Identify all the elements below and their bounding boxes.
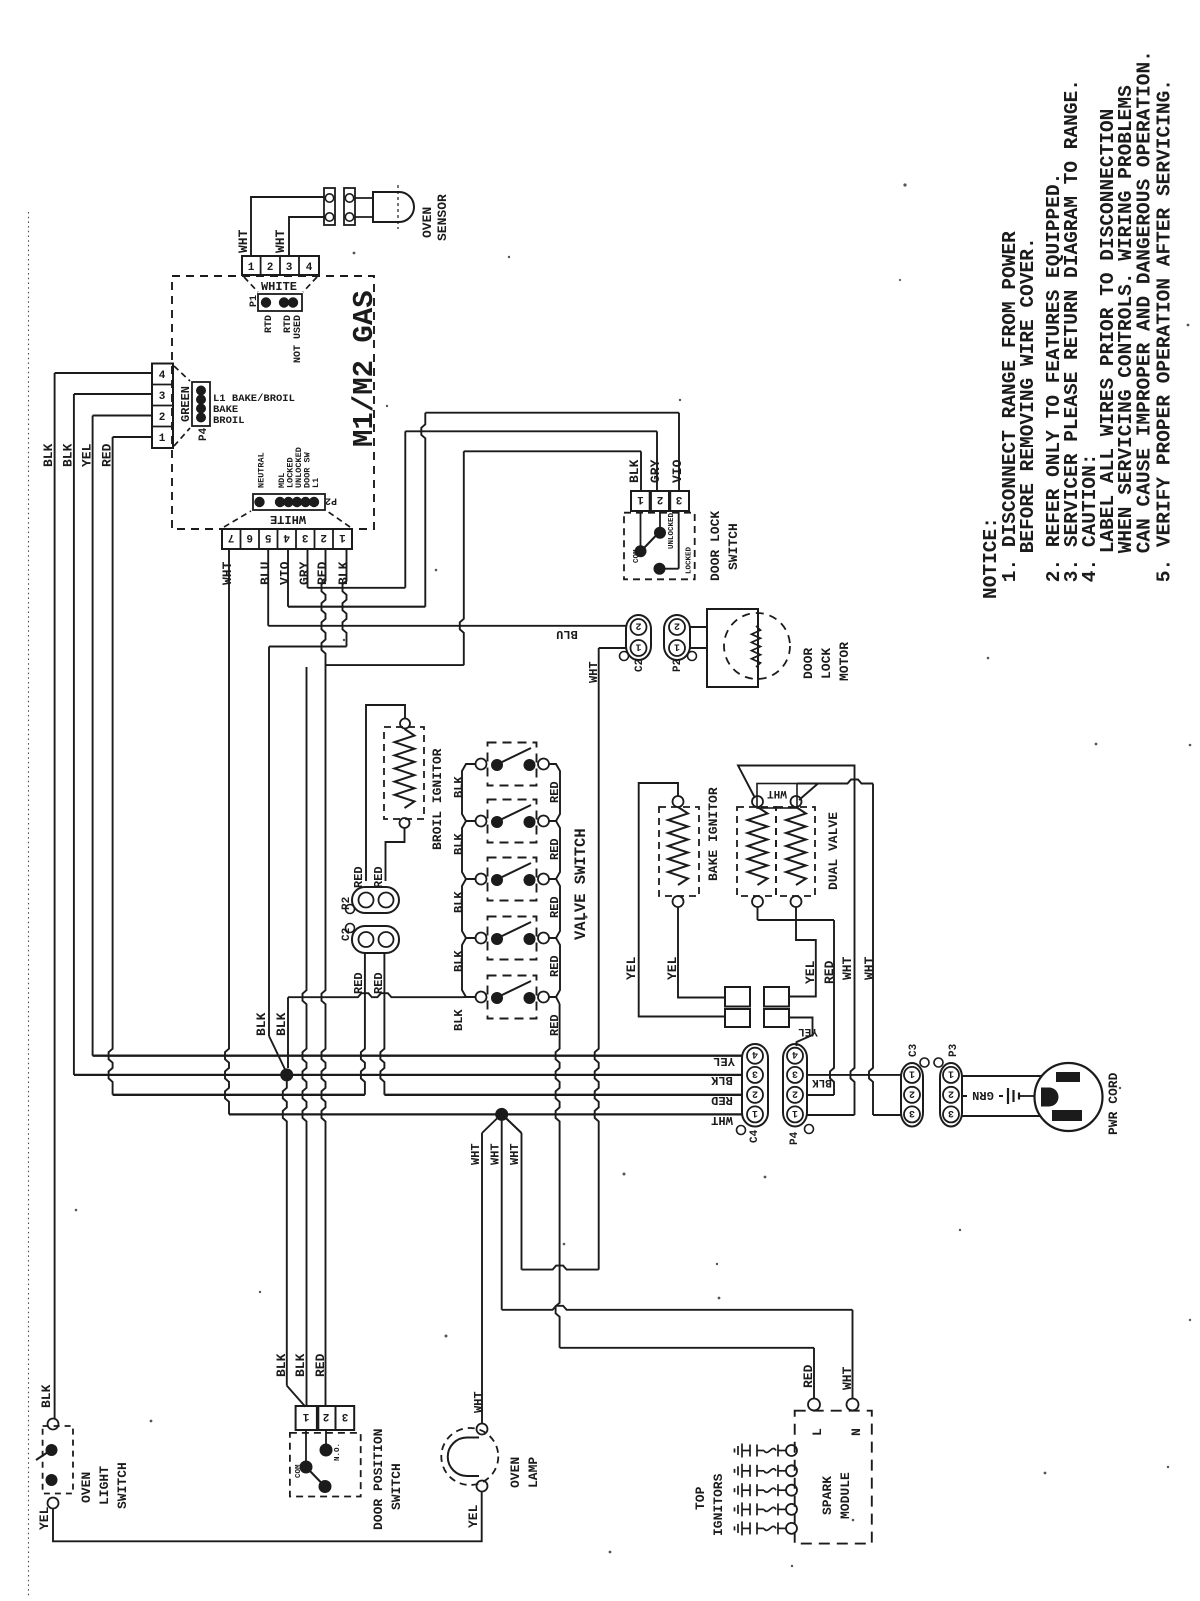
svg-text:1: 1 bbox=[339, 531, 346, 543]
oven lamp dashed circle bbox=[441, 1428, 498, 1485]
svg-text:RTD: RTD bbox=[264, 315, 275, 333]
wire BLK board left pin4 bbox=[55, 372, 152, 374]
svg-text:M1/M2 GAS: M1/M2 GAS bbox=[348, 290, 381, 447]
WHT label box on dual valve bbox=[757, 784, 797, 809]
svg-text:BLK: BLK bbox=[710, 1073, 732, 1087]
wire VIO board bottom pin4 to door lock switch pin3 bbox=[287, 549, 289, 607]
svg-text:LAMP: LAMP bbox=[526, 1457, 541, 1488]
bake ignitor terminal bottom bbox=[673, 896, 684, 907]
svg-text:4: 4 bbox=[792, 1048, 798, 1059]
bake ignitor dashed box bbox=[659, 807, 699, 896]
svg-text:RED: RED bbox=[822, 960, 837, 984]
svg-text:4: 4 bbox=[752, 1048, 758, 1059]
svg-text:1: 1 bbox=[909, 1067, 915, 1078]
svg-text:VALVE SWITCH: VALVE SWITCH bbox=[572, 828, 590, 940]
valve switch contacts row 5 bbox=[476, 992, 487, 1003]
connector P1 on board bbox=[258, 294, 302, 311]
svg-text:OVEN: OVEN bbox=[420, 207, 435, 238]
svg-text:1: 1 bbox=[637, 493, 644, 505]
svg-text:BLK: BLK bbox=[452, 950, 466, 972]
svg-text:BLK: BLK bbox=[41, 443, 56, 467]
svg-text:SWITCH: SWITCH bbox=[389, 1463, 404, 1510]
oven light switch contacts bbox=[46, 1444, 58, 1456]
svg-text:YEL: YEL bbox=[665, 956, 680, 980]
svg-text:2: 2 bbox=[267, 262, 274, 274]
svg-text:2: 2 bbox=[159, 412, 166, 424]
svg-text:WHITE: WHITE bbox=[270, 512, 306, 526]
svg-text:BLK: BLK bbox=[254, 1012, 269, 1036]
svg-text:WHT: WHT bbox=[273, 229, 288, 253]
dual valve coil right bbox=[786, 807, 806, 885]
broil ignitor resistor bbox=[395, 729, 415, 808]
svg-text:3: 3 bbox=[675, 493, 682, 505]
scan edge artifact left bbox=[28, 212, 30, 1596]
svg-text:RED: RED bbox=[315, 561, 330, 585]
svg-text:WHT: WHT bbox=[489, 1143, 503, 1165]
door lock motor dashed circle bbox=[724, 613, 790, 679]
connector C3 bbox=[901, 1063, 923, 1127]
ground symbol bbox=[1007, 1088, 1009, 1104]
broil ignitor terminal bottom bbox=[400, 818, 410, 828]
svg-text:BLK: BLK bbox=[336, 561, 351, 585]
svg-text:WHT: WHT bbox=[587, 661, 601, 683]
label GRN bbox=[967, 1088, 999, 1104]
svg-text:UNLOCKED: UNLOCKED bbox=[668, 512, 676, 549]
connector C4 bbox=[742, 1044, 768, 1127]
svg-text:3: 3 bbox=[792, 1067, 798, 1078]
svg-text:YEL: YEL bbox=[798, 1025, 818, 1037]
svg-text:RED: RED bbox=[352, 972, 366, 994]
wire WHT dual valve common to P4 pin1 bbox=[738, 766, 855, 799]
svg-text:NEUTRAL: NEUTRAL bbox=[257, 452, 267, 488]
wire BLK board bottom pin1 to BLK bus junction bbox=[343, 549, 347, 647]
svg-text:BROIL IGNITOR: BROIL IGNITOR bbox=[430, 748, 445, 850]
broil ignitor terminal top bbox=[400, 719, 410, 729]
oven lamp terminal top bbox=[477, 1424, 488, 1435]
svg-text:OVEN: OVEN bbox=[79, 1472, 94, 1503]
svg-text:BLK: BLK bbox=[61, 443, 76, 467]
svg-text:P2: P2 bbox=[325, 495, 337, 506]
valve switch left chain wires bbox=[462, 764, 476, 821]
wire C2 pin2 down to RED bus east segment bbox=[380, 953, 384, 1095]
wire WHT to spark module N bbox=[501, 1114, 503, 1309]
svg-text:GREEN: GREEN bbox=[179, 386, 193, 422]
wire WHT board pin1 to oven sensor bbox=[251, 197, 324, 256]
oven light switch terminal bottom bbox=[48, 1498, 59, 1509]
control board M1/M2 GAS dashed outline bbox=[172, 276, 374, 529]
wire RED into spark module L bbox=[808, 1399, 820, 1411]
svg-text:C2: C2 bbox=[341, 928, 353, 941]
door position switch dashed box bbox=[290, 1433, 361, 1497]
svg-text:PWR CORD: PWR CORD bbox=[1106, 1072, 1121, 1135]
svg-text:BLK: BLK bbox=[274, 1353, 289, 1377]
svg-text:MOTOR: MOTOR bbox=[837, 642, 852, 681]
wire BLK valve chain to door position switch pin1 bbox=[303, 667, 307, 1407]
dual valve terminal top-right bbox=[791, 796, 802, 807]
svg-text:BLU: BLU bbox=[258, 562, 273, 585]
svg-text:WHT: WHT bbox=[508, 1143, 522, 1165]
svg-text:BLU: BLU bbox=[556, 627, 578, 641]
wire GRN P3 pin2 with ground bbox=[962, 1095, 1003, 1097]
power cord blade bottom bbox=[1052, 1110, 1082, 1121]
fuse box left (two-box) bbox=[725, 987, 750, 1007]
wire WHT door lock motor pin1 to WHT bus bbox=[599, 647, 626, 649]
bake ignitor terminal top bbox=[673, 796, 684, 807]
svg-text:1: 1 bbox=[635, 641, 641, 652]
svg-text:BLK: BLK bbox=[627, 459, 642, 483]
door position switch contacts bbox=[305, 1430, 307, 1462]
svg-text:1: 1 bbox=[159, 433, 166, 445]
wire RED dual valve common to P4 pin2 bbox=[830, 920, 834, 1095]
wire WHT into spark module N bbox=[847, 1399, 859, 1411]
wire WHT to oven lamp bbox=[482, 1117, 499, 1134]
svg-text:WHT: WHT bbox=[840, 956, 855, 980]
connector P4 on board bbox=[192, 382, 210, 426]
svg-text:BLK: BLK bbox=[452, 833, 466, 855]
svg-text:4: 4 bbox=[159, 370, 166, 382]
door lock switch connector strip pins 1-3 bbox=[631, 491, 689, 511]
dual valve terminal bottom-left bbox=[752, 896, 763, 907]
svg-text:3: 3 bbox=[341, 1410, 348, 1422]
wire broil top to ignitor P2 pin1 bbox=[366, 705, 405, 881]
svg-text:2: 2 bbox=[752, 1087, 758, 1098]
board bottom connector P2 bbox=[253, 494, 325, 510]
bus BLK to C4 pin3 bbox=[74, 1074, 742, 1076]
oven sensor connector block A bbox=[324, 188, 335, 225]
svg-text:WHT: WHT bbox=[862, 956, 877, 980]
wire RED valve switch to spark module L bbox=[549, 997, 560, 1004]
svg-text:RED: RED bbox=[801, 1364, 816, 1388]
svg-text:1: 1 bbox=[752, 1107, 758, 1118]
svg-text:2: 2 bbox=[635, 620, 641, 631]
svg-text:RED: RED bbox=[313, 1353, 328, 1377]
wire BLK valve switch feed from BLK bus bbox=[462, 996, 476, 998]
svg-text:P2: P2 bbox=[672, 659, 684, 672]
svg-text:WHT: WHT bbox=[472, 1391, 486, 1413]
svg-text:LOCKED: LOCKED bbox=[686, 546, 694, 574]
svg-text:YEL: YEL bbox=[37, 1506, 52, 1530]
wire WHT board bottom pin7 to WHT bus bbox=[225, 549, 229, 1114]
power cord circle bbox=[1035, 1063, 1103, 1131]
wire P3 pin1 to power cord bbox=[962, 1075, 1041, 1077]
svg-text:TOP: TOP bbox=[693, 1486, 708, 1510]
svg-text:C3: C3 bbox=[908, 1043, 920, 1057]
oven sensor bulb bbox=[373, 192, 414, 222]
wire YEL bake top loop to fuse box bottom bbox=[639, 783, 725, 1017]
wire dual valve bottom common bbox=[757, 907, 759, 920]
connector C2 (ignitor) bbox=[352, 926, 399, 953]
valve switch contacts row 3 bbox=[476, 874, 487, 885]
junction dot BLK bus bbox=[280, 1068, 293, 1081]
door position switch connector strip bbox=[296, 1406, 355, 1430]
oven lamp terminal bottom bbox=[477, 1481, 488, 1492]
wire C2 pin1 down to RED bus west segment bbox=[361, 953, 365, 1095]
svg-text:DOOR: DOOR bbox=[801, 648, 816, 679]
svg-text:LIGHT: LIGHT bbox=[97, 1466, 112, 1505]
svg-text:YEL: YEL bbox=[80, 443, 95, 467]
wire BLK P4 pin3 to C3 pin1 bbox=[807, 1074, 901, 1076]
svg-text:4: 4 bbox=[306, 262, 313, 274]
svg-text:SPARK: SPARK bbox=[820, 1476, 835, 1515]
svg-text:IGNITORS: IGNITORS bbox=[711, 1473, 726, 1536]
svg-text:BLK: BLK bbox=[39, 1384, 54, 1408]
svg-text:RED: RED bbox=[711, 1093, 733, 1107]
svg-text:DOOR LOCK: DOOR LOCK bbox=[708, 511, 723, 581]
svg-text:BLK: BLK bbox=[293, 1353, 308, 1377]
svg-text:NOT USED: NOT USED bbox=[293, 315, 304, 363]
svg-text:6: 6 bbox=[246, 531, 253, 543]
wire BLK junction to door position switch pin1 bbox=[283, 1078, 287, 1386]
svg-text:VIO: VIO bbox=[278, 561, 293, 585]
svg-text:2: 2 bbox=[674, 620, 680, 631]
svg-text:3: 3 bbox=[302, 531, 309, 543]
svg-text:3: 3 bbox=[948, 1107, 954, 1118]
svg-text:LOCK: LOCK bbox=[819, 648, 834, 679]
connector P3 bbox=[940, 1063, 962, 1127]
connector P2 (ignitor) bbox=[352, 887, 399, 913]
svg-text:2: 2 bbox=[948, 1087, 954, 1098]
fuse box right (two-box) bbox=[764, 987, 789, 1007]
svg-text:WHT: WHT bbox=[236, 229, 251, 253]
svg-text:SWITCH: SWITCH bbox=[115, 1462, 130, 1509]
junction dot WHT bus bbox=[495, 1108, 508, 1121]
oven light switch dashed box bbox=[43, 1426, 73, 1494]
svg-text:BLK: BLK bbox=[452, 776, 466, 798]
connector P2 (door lock motor) bbox=[664, 615, 690, 660]
wire sensor block B to bulb bbox=[355, 197, 373, 199]
wire P2 to motor bbox=[690, 626, 707, 628]
svg-text:5: 5 bbox=[265, 531, 272, 543]
svg-text:CAN CAUSE IMPROPER AND DANGERO: CAN CAUSE IMPROPER AND DANGEROUS OPERATI… bbox=[1134, 50, 1156, 553]
board bottom connector strip pins 7-1 bbox=[222, 529, 352, 549]
bus RED west segment bbox=[113, 1094, 365, 1096]
svg-text:2: 2 bbox=[657, 493, 664, 505]
board left connector strip pins 4-1 (GREEN) bbox=[152, 364, 173, 449]
oven sensor connector block B bbox=[344, 188, 355, 225]
svg-text:L: L bbox=[810, 1428, 825, 1436]
svg-text:5. VERIFY PROPER OPERATION AFT: 5. VERIFY PROPER OPERATION AFTER SERVICI… bbox=[1154, 79, 1176, 582]
wire YEL dual valve common to fuse box right bbox=[789, 920, 816, 997]
bake ignitor resistor bbox=[668, 807, 688, 885]
svg-text:2: 2 bbox=[323, 1410, 330, 1422]
svg-text:GRY: GRY bbox=[648, 459, 663, 483]
wire P3 pin3 to power cord bbox=[962, 1115, 1041, 1117]
wire YEL board left pin2 to YEL bus bbox=[93, 415, 152, 417]
svg-text:BLK: BLK bbox=[812, 1076, 832, 1088]
oven light switch terminal top bbox=[48, 1419, 59, 1430]
valve switch contacts row 1 bbox=[476, 759, 487, 770]
svg-text:1: 1 bbox=[792, 1107, 798, 1118]
svg-text:WHT: WHT bbox=[220, 561, 235, 585]
connector P4 bbox=[783, 1044, 807, 1127]
svg-text:P3: P3 bbox=[948, 1043, 960, 1057]
wire RED branch to door lock switch COM bbox=[326, 664, 464, 666]
svg-text:COM: COM bbox=[633, 549, 641, 563]
dual valve terminal bottom-right bbox=[791, 896, 802, 907]
door lock motor coil bbox=[752, 626, 761, 667]
svg-text:P4: P4 bbox=[198, 427, 210, 441]
broil ignitor dashed box bbox=[384, 727, 424, 819]
svg-text:1: 1 bbox=[302, 1410, 309, 1422]
label WHT (dot third branch) bbox=[505, 1117, 522, 1134]
svg-text:7: 7 bbox=[228, 531, 235, 543]
svg-text:3: 3 bbox=[752, 1067, 758, 1078]
svg-text:YEL: YEL bbox=[713, 1054, 735, 1068]
svg-text:BLK: BLK bbox=[452, 1009, 466, 1031]
dual valve dashed boxes bbox=[737, 807, 776, 896]
svg-text:MODULE: MODULE bbox=[838, 1472, 853, 1519]
svg-text:WHT: WHT bbox=[767, 787, 787, 799]
svg-text:DUAL VALVE: DUAL VALVE bbox=[826, 812, 841, 890]
svg-text:SWITCH: SWITCH bbox=[726, 523, 741, 570]
svg-text:VIO: VIO bbox=[670, 459, 685, 483]
svg-text:BAKE IGNITOR: BAKE IGNITOR bbox=[706, 787, 721, 881]
svg-text:3: 3 bbox=[286, 262, 293, 274]
spark module output terminals bbox=[786, 1445, 797, 1456]
bus RED east segment to C4 pin2 bbox=[384, 1094, 742, 1096]
svg-text:1: 1 bbox=[948, 1067, 954, 1078]
dashed funnel to P4 bbox=[174, 366, 190, 381]
svg-text:2: 2 bbox=[792, 1087, 798, 1098]
bus YEL to C4 pin4 bbox=[93, 1055, 742, 1057]
valve switch dashed boxes bbox=[488, 743, 537, 786]
svg-text:C2: C2 bbox=[634, 659, 646, 672]
wire YEL bake bottom to fuse box top bbox=[678, 907, 725, 998]
board top connector strip pins 1-4 bbox=[242, 256, 319, 275]
wire YEL oven light switch to oven lamp bbox=[53, 1492, 482, 1542]
wire BLU board bottom pin5 to door lock motor bbox=[267, 549, 269, 626]
wire RED board left pin1 to RED bus bbox=[113, 436, 152, 438]
svg-text:N: N bbox=[849, 1428, 864, 1436]
oven lamp filament bbox=[448, 1438, 479, 1477]
svg-text:GRN: GRN bbox=[972, 1088, 994, 1102]
wire WHT dual valve right coil to C3 pin3 bbox=[799, 784, 818, 801]
valve switch contacts row 2 bbox=[476, 816, 487, 827]
dashed funnel from bottom strip to P2 bbox=[224, 511, 251, 527]
valve switch contacts row 4 bbox=[476, 933, 487, 944]
wire BLK board left pin3 to BLK bus bbox=[74, 393, 152, 395]
power cord ground pin bbox=[1041, 1088, 1059, 1107]
svg-text:P1: P1 bbox=[249, 295, 260, 307]
door lock switch internal contacts bbox=[640, 511, 642, 546]
svg-text:WHITE: WHITE bbox=[261, 280, 297, 294]
dual valve coil left bbox=[748, 807, 768, 885]
svg-text:BLK: BLK bbox=[452, 891, 466, 913]
svg-text:WHT: WHT bbox=[711, 1113, 733, 1127]
svg-text:L1: L1 bbox=[311, 478, 321, 488]
svg-text:RED: RED bbox=[372, 866, 386, 888]
svg-text:GRY: GRY bbox=[297, 561, 312, 585]
scan noise specks bbox=[353, 252, 356, 255]
svg-text:WHT: WHT bbox=[840, 1366, 855, 1390]
svg-text:1: 1 bbox=[248, 262, 255, 274]
svg-text:4: 4 bbox=[283, 531, 290, 543]
spark module dashed box bbox=[795, 1411, 872, 1544]
svg-text:BLK: BLK bbox=[274, 1012, 289, 1036]
wire WHT board pin3 to oven sensor bbox=[289, 217, 324, 256]
top ignitor symbols bbox=[735, 1444, 787, 1458]
svg-text:C4: C4 bbox=[749, 1129, 761, 1143]
svg-text:OVEN: OVEN bbox=[508, 1457, 523, 1488]
wire YEL fuse box right to P4 pin4 bbox=[789, 1018, 813, 1047]
svg-text:BROIL: BROIL bbox=[213, 415, 245, 427]
svg-text:DOOR POSITION: DOOR POSITION bbox=[371, 1429, 386, 1530]
svg-text:YEL: YEL bbox=[466, 1504, 481, 1528]
svg-text:YEL: YEL bbox=[803, 960, 818, 984]
svg-text:COM: COM bbox=[295, 1464, 303, 1478]
wire RED board bottom pin2 to door position switch pin2 bbox=[322, 549, 326, 1407]
svg-text:BEFORE REMOVING WIRE COVER.: BEFORE REMOVING WIRE COVER. bbox=[1017, 237, 1039, 553]
svg-text:SENSOR: SENSOR bbox=[435, 194, 450, 241]
bus WHT to C4 pin1 bbox=[229, 1113, 742, 1115]
power cord blade top bbox=[1056, 1072, 1080, 1082]
svg-text:P2: P2 bbox=[341, 897, 353, 910]
svg-text:1: 1 bbox=[674, 641, 680, 652]
svg-text:RED: RED bbox=[352, 866, 366, 888]
svg-text:2: 2 bbox=[320, 531, 327, 543]
wire broil bottom to ignitor P2 pin2 bbox=[386, 828, 405, 881]
wire GRY board bottom pin3 to door lock switch pin2 bbox=[307, 549, 309, 588]
svg-text:P4: P4 bbox=[789, 1131, 801, 1145]
svg-text:WHT: WHT bbox=[469, 1143, 483, 1165]
connector C2 (door lock motor) bbox=[626, 615, 651, 660]
svg-text:3: 3 bbox=[159, 391, 166, 403]
valve switch right chain wires bbox=[549, 764, 560, 821]
svg-text:YEL: YEL bbox=[624, 956, 639, 980]
door lock motor body bbox=[707, 609, 758, 687]
dual valve terminal top-left bbox=[752, 796, 763, 807]
svg-text:RED: RED bbox=[100, 443, 115, 467]
dashed funnel to P1 bbox=[244, 277, 258, 292]
svg-text:3: 3 bbox=[909, 1107, 915, 1118]
door lock switch dashed box bbox=[624, 513, 695, 580]
svg-text:2: 2 bbox=[909, 1087, 915, 1098]
svg-text:N.O.: N.O. bbox=[334, 1443, 342, 1461]
